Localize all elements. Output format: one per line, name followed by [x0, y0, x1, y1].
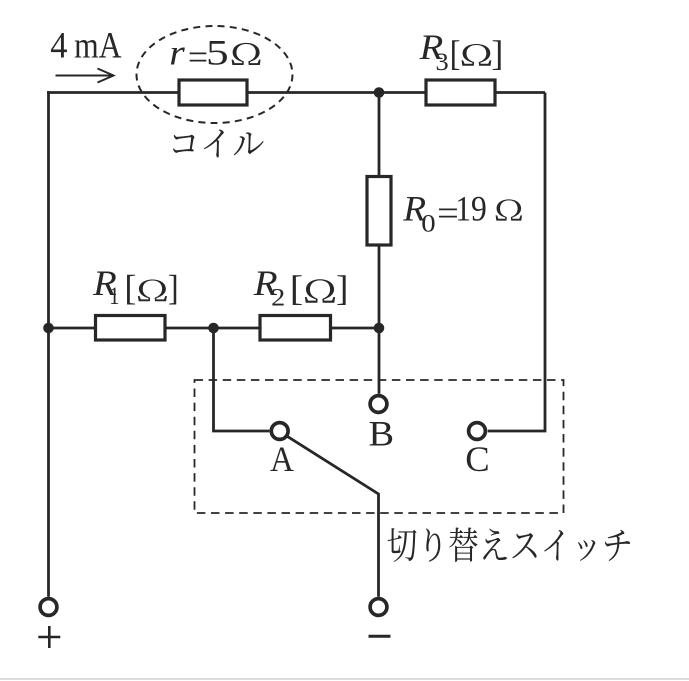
- switch contact circle A: [271, 423, 288, 440]
- label coil (katakana ko-i-ru): [173, 130, 264, 158]
- svg-text:C: C: [465, 439, 489, 479]
- svg-text:]: ]: [336, 268, 348, 308]
- svg-text:mA: mA: [74, 25, 122, 66]
- svg-text:19: 19: [455, 190, 487, 229]
- svg-text:[: [: [290, 269, 303, 309]
- wire left vertical rail from top corner to + terminal: [47, 91, 50, 597]
- terminal circle -: [370, 599, 387, 616]
- label 4 mA: [50, 25, 121, 67]
- junction node left rail / R1: [43, 323, 54, 334]
- svg-text:[: [: [450, 34, 461, 74]
- svg-text:A: A: [270, 440, 294, 480]
- junction node top of R0 branch: [374, 87, 385, 98]
- plus sign of + terminal: [38, 626, 60, 648]
- label R3[ohm]: [419, 28, 504, 76]
- wire switch lever from A to - terminal: [288, 437, 379, 597]
- svg-text:5: 5: [206, 32, 229, 72]
- value label r=5 ohm on coil: [169, 32, 260, 77]
- switch dashed box: [195, 380, 564, 513]
- switch contact circle C: [469, 423, 486, 440]
- svg-text:3: 3: [436, 48, 449, 76]
- resistor R0 body: [367, 177, 391, 246]
- svg-text:0: 0: [421, 209, 435, 237]
- svg-text:r: r: [169, 33, 185, 73]
- bottom page separator line: [0, 678, 689, 680]
- svg-text:B: B: [369, 415, 395, 455]
- wire middle node down to contact A: [214, 328, 270, 431]
- resistor R3 body: [426, 80, 495, 105]
- terminal circle +: [40, 599, 57, 616]
- wire right vertical through R3 down to contact C: [488, 93, 545, 432]
- label R1[ohm]: [92, 264, 179, 310]
- wire R1-R2 horizontal row: [49, 327, 380, 330]
- value label R0=19 ohm: [402, 188, 522, 237]
- current direction arrow: [56, 69, 114, 83]
- svg-text:4: 4: [50, 25, 67, 66]
- label selector switch (kirikae switch): [388, 527, 631, 561]
- switch contact circle B: [370, 396, 387, 413]
- resistor R2 body: [260, 316, 331, 341]
- junction node R2 / R0: [374, 323, 385, 334]
- resistor r body (coil): [179, 80, 247, 105]
- svg-text:1: 1: [109, 282, 119, 309]
- minus sign of - terminal: [369, 635, 391, 638]
- label R2[ohm]: [253, 264, 349, 311]
- svg-text:]: ]: [168, 269, 179, 308]
- coil dashed ellipse: [137, 26, 293, 123]
- svg-text:]: ]: [491, 33, 503, 73]
- wire top horizontal through coil: [47, 91, 545, 94]
- svg-text:2: 2: [271, 283, 285, 311]
- wire R0 branch vertical down to contact B: [378, 93, 381, 394]
- svg-text:[: [: [124, 267, 136, 307]
- junction node R1 / R2 / switch A: [208, 323, 219, 334]
- resistor R1 body: [96, 316, 166, 341]
